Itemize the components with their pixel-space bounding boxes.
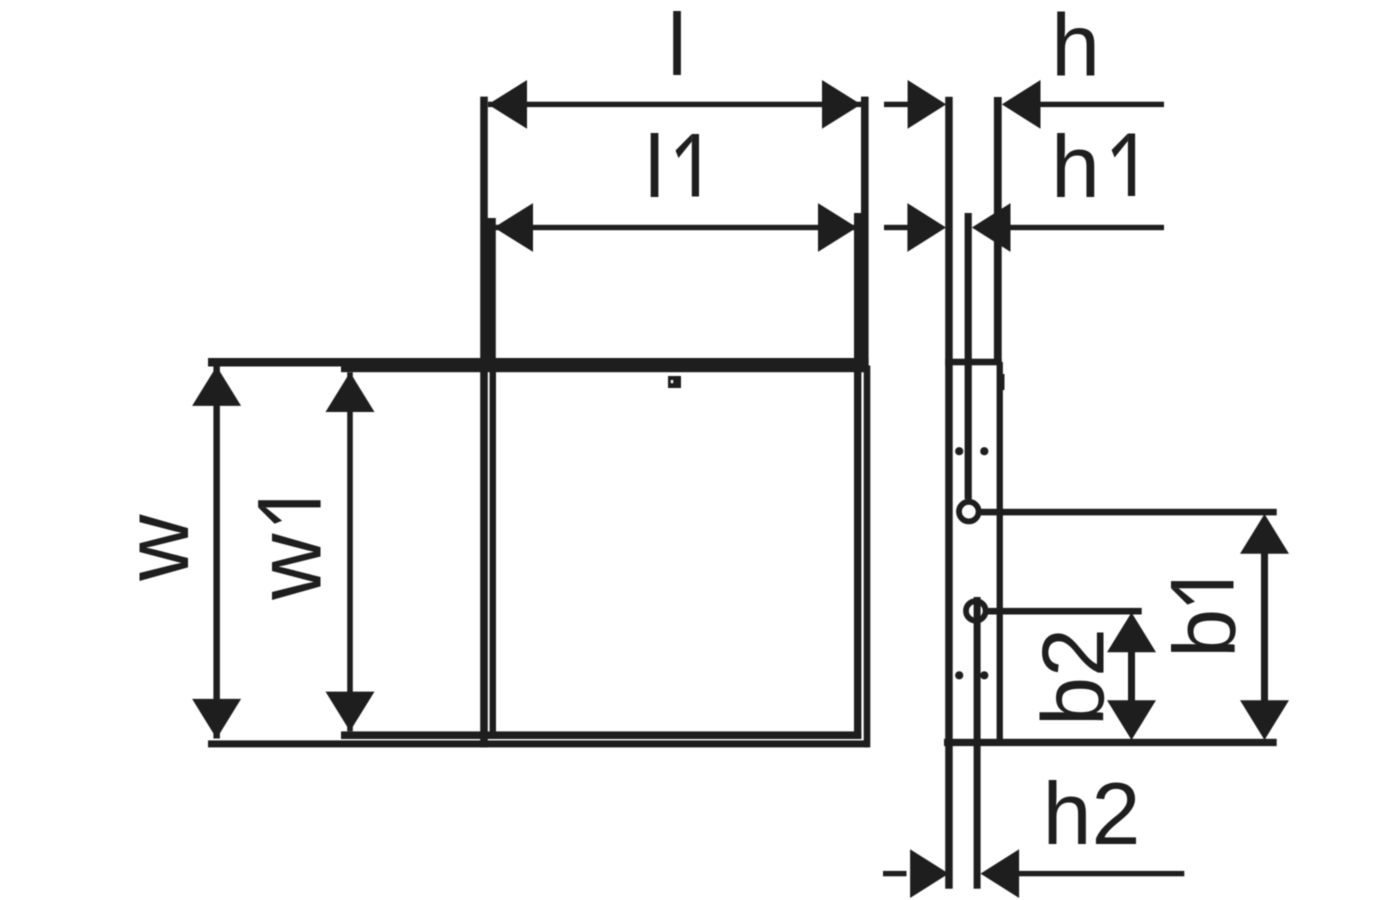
dimension l: line	[488, 102, 861, 107]
svg-text:h: h	[1043, 764, 1092, 863]
dimension b1: bottom arrowhead	[1240, 700, 1289, 740]
dimension h2: right tail	[1016, 871, 1184, 876]
side view: top flange line	[945, 359, 1002, 366]
dimension b2: top arrowhead	[1107, 613, 1156, 653]
bottom reference line	[944, 739, 1277, 746]
dimension l: left arrowhead	[488, 80, 527, 129]
dimension b1: top arrowhead	[1240, 514, 1289, 554]
side view: hole circle 2	[966, 601, 986, 621]
front view: l1 extension line (left, merges with outer above plate)	[487, 218, 496, 368]
dimension h1: right tail	[1010, 225, 1164, 230]
front view: small slot mark at top center	[668, 376, 681, 388]
dimension h: left tail	[884, 102, 908, 107]
front view: right outer edge lower	[864, 366, 871, 748]
front view: plate bottom inner line	[341, 731, 861, 739]
dimension h2: right arrowhead (points left)	[981, 849, 1020, 898]
front view: left inner edge	[490, 365, 496, 739]
svg-text:b: b	[1155, 609, 1254, 658]
side view: hole circle 1	[959, 502, 979, 522]
front view: right outer edge upper / l extension line	[861, 97, 869, 373]
svg-text:2: 2	[1092, 764, 1141, 863]
svg-text:w: w	[239, 533, 341, 601]
side view: small protrusion	[1000, 374, 1005, 390]
dimension w1: top arrowhead	[326, 372, 375, 412]
dimension b2: bottom arrowhead	[1107, 700, 1156, 740]
dimension h: right arrowhead (points left)	[1002, 80, 1041, 129]
dimension l1: left arrowhead	[494, 203, 533, 252]
dimension w1: bottom arrowhead	[326, 692, 375, 732]
dimension h1: left arrowhead (points right)	[907, 203, 946, 252]
side view: right edge upper line	[994, 97, 1002, 362]
front view: right inner edge + l1 extension line	[854, 213, 861, 739]
side view: dots	[955, 447, 963, 455]
side view: middle line (h1 face)	[965, 213, 972, 499]
dimension l: right arrowhead	[822, 80, 861, 129]
dimension h1: right arrowhead (points left)	[972, 203, 1011, 252]
svg-text:l: l	[645, 117, 665, 216]
reference line from hole 2 (b2)	[988, 608, 1142, 615]
svg-text:b2: b2	[1023, 628, 1122, 726]
svg-text:h: h	[1051, 117, 1100, 216]
side view: left edge line	[945, 97, 953, 889]
dimension w1: line	[347, 372, 353, 731]
side view: right edge lower line	[997, 362, 1003, 742]
dimension b1: shaft	[1261, 550, 1268, 702]
dimension h: left arrowhead (points right)	[908, 80, 947, 129]
dimension l1: right arrowhead	[818, 203, 857, 252]
dimension h: right tail	[1040, 102, 1164, 107]
dimension h1: left tail	[884, 225, 908, 230]
dimension w: line	[213, 366, 220, 739]
dimension w: bottom arrowhead	[192, 699, 241, 739]
svg-text:l: l	[667, 0, 687, 94]
dimension b2: shaft	[1128, 650, 1135, 702]
reference line from hole 1 (b1)	[981, 509, 1277, 516]
front view: plate bottom outer line + w extension	[208, 740, 869, 747]
side view: tail line through circle 2	[974, 597, 981, 889]
front view: plate top edge thick part / w1 extension	[341, 365, 869, 372]
dimension w: top arrowhead	[192, 366, 241, 406]
dimension h2: left arrowhead (points right)	[910, 849, 949, 898]
svg-text:h: h	[1051, 0, 1100, 94]
dimension h2: left tail	[883, 871, 907, 876]
front view: plate top edge band	[208, 358, 869, 367]
front view: left outer edge + l extension line	[480, 97, 488, 748]
svg-text:w: w	[106, 514, 208, 582]
dimension l1: line	[494, 225, 857, 230]
